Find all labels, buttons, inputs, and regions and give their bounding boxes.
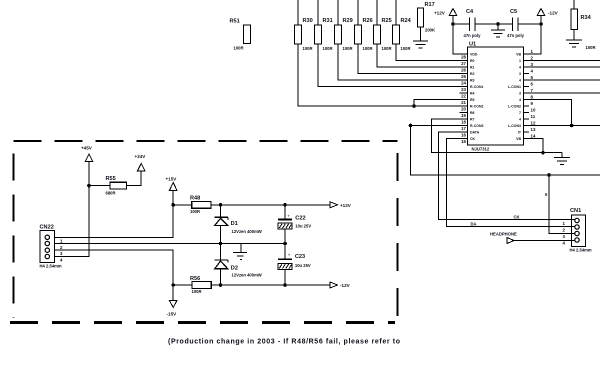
pin 11 stub [524,118,530,120]
svg-text:R-CON3: R-CON3 [470,124,483,128]
svg-text:7: 7 [519,111,521,115]
node -15V/R56 junction [171,283,175,287]
node -12V/C5 junction [539,22,543,26]
+15V supply arrow [166,177,178,191]
pin 10 stub [524,112,530,114]
node C22 top on +12V rail [283,203,287,207]
svg-text:10u 25V: 10u 25V [295,263,311,268]
svg-text:C23: C23 [295,254,305,260]
wire -12V rail [211,284,330,286]
wire +12V rail [211,204,330,206]
svg-text:D2: D2 [231,266,238,272]
wire CN22 pin 3 to -15V node [55,250,174,285]
svg-text:+12V: +12V [340,203,352,208]
zener diode D1 [215,205,262,244]
wire R30 to pin 20 [298,44,468,106]
resistor R51 [230,19,251,51]
svg-text:R3: R3 [470,78,475,82]
svg-text:R26: R26 [363,18,373,24]
svg-text:100R: 100R [323,46,333,51]
svg-text:(Production change in 2003 - I: (Production change in 2003 - If R48/R56 … [168,339,400,346]
svg-text:VDD: VDD [470,52,478,56]
svg-text:4: 4 [519,117,521,121]
wire pin 5 to right edge [524,79,600,81]
svg-text:100R: 100R [234,46,244,51]
+45V supply arrow [81,146,93,162]
wire CK pin 15 to CN1 pin 2 [446,139,574,227]
svg-text:DATA: DATA [470,130,480,134]
ground below R34 [566,30,582,48]
svg-text:+34V: +34V [135,154,147,159]
svg-text:26: 26 [461,68,466,73]
resistor R55 [89,176,127,196]
connector CN22 [40,225,62,269]
svg-text:H4 2.54mm: H4 2.54mm [570,248,592,253]
svg-text:-12V: -12V [340,283,351,288]
ground right of U1 [554,153,570,165]
wire pin 2 to right edge [524,60,600,62]
wire pin 18 row [411,125,468,127]
svg-text:+15V: +15V [166,177,178,182]
svg-text:C4: C4 [466,9,474,15]
svg-text:28: 28 [461,55,466,60]
op-amp U1 (electronic volume IC) [468,42,524,152]
wire C5 to -12V line [518,23,541,25]
capacitor C4 [464,9,482,38]
pin 19 stub [460,112,468,114]
wire pin 3 to right edge [524,66,600,68]
svg-text:680R: 680R [106,191,116,196]
svg-text:-15V: -15V [167,312,178,317]
node D2 bottom [219,283,223,287]
node D1 top [219,203,223,207]
svg-text:R7: R7 [470,117,475,121]
wire +12V to VDD pin 28 [453,16,468,55]
svg-text:22: 22 [461,94,466,99]
headphone signal arrow [507,238,514,244]
node ground junction [496,22,500,26]
node +15V/R48/CN22-1 junction [171,203,175,207]
resistor R48 [173,196,211,214]
svg-text:23: 23 [461,87,466,92]
svg-text:17: 17 [461,126,466,131]
wire node down to -15V arrow [172,285,174,301]
svg-text:+12V: +12V [434,11,446,16]
svg-text:R48: R48 [190,196,200,202]
wire headphone to CN1 pin 4 [514,240,575,242]
wire R26 to pin 25 [358,44,468,74]
zener diode D2 [215,244,262,286]
wire R25 to pin 26 [377,44,468,67]
svg-text:+45V: +45V [81,146,93,151]
capacitor C5 [507,9,525,38]
svg-text:L-CON3: L-CON3 [508,124,521,128]
connector CN1 [570,208,592,253]
wire CN22 pin2 mid rail [55,243,286,245]
svg-text:HEADPHONE: HEADPHONE [490,232,517,237]
svg-text:C22: C22 [295,216,305,222]
node junction bus to CN1 pin 3 [547,173,551,177]
svg-text:R34: R34 [581,15,592,21]
svg-text:10: 10 [531,108,536,113]
dashed enclosure left border [12,153,14,318]
svg-text:R1: R1 [470,65,475,69]
svg-text:D1: D1 [231,221,238,227]
svg-text:100R: 100R [401,46,411,51]
svg-text:R24: R24 [401,18,412,24]
svg-text:R5: R5 [470,98,475,102]
node pin14 ground junction [541,151,545,155]
svg-text:C5: C5 [510,9,517,15]
dashed enclosure bottom border [10,321,395,324]
svg-text:15: 15 [461,139,466,144]
svg-text:100R: 100R [303,46,313,51]
wire pin 8 to loop vertical [524,100,572,126]
svg-text:H4 2.54mm: H4 2.54mm [40,264,62,269]
svg-text:12: 12 [531,121,536,126]
dashed enclosure right border [396,153,398,318]
svg-text:100R: 100R [382,46,392,51]
wire bus down to CN1 pin 3 [549,175,575,234]
svg-text:VB: VB [516,137,521,141]
pin 9 stub [524,105,530,107]
svg-text:L-CON1: L-CON1 [508,85,521,89]
wire pin 12 row to right edge [524,125,600,127]
resistor R26 [355,0,373,51]
node R55 junction [87,184,91,188]
svg-text:10u 25V: 10u 25V [295,224,311,229]
pin 13 stub [524,131,530,133]
wire DATA pin 16 to CN1 pin 1 [439,132,575,220]
svg-text:R56: R56 [190,276,200,282]
-12V output arrow [330,282,351,288]
resistor R24 [393,0,412,51]
svg-text:CK: CK [514,214,520,219]
svg-text:11: 11 [531,114,536,119]
svg-text:13: 13 [531,127,536,132]
wire pin 17 to ground rail [431,119,562,153]
svg-text:100R: 100R [343,46,353,51]
svg-text:R29: R29 [343,18,353,24]
node loop junction pin 12 row [570,124,574,128]
svg-text:14: 14 [531,134,536,139]
pin 6 stub [524,86,530,88]
svg-text:25: 25 [461,74,466,79]
svg-text:16: 16 [461,133,466,138]
resistor R17 [418,2,436,33]
svg-text:47n poly: 47n poly [464,33,482,38]
svg-text:+: + [287,214,290,219]
node C23 bottom [283,283,287,287]
svg-text:1: 1 [519,59,521,63]
svg-text:NJU7312: NJU7312 [472,147,490,152]
svg-text:R30: R30 [303,18,313,24]
-12V supply arrow [537,9,558,16]
svg-text:47n poly: 47n poly [507,33,525,38]
svg-text:+: + [288,253,291,258]
wire pin 14 down to ground rail [524,139,544,153]
wire +15V down to R48 node [172,191,174,205]
svg-text:100R: 100R [192,289,202,294]
svg-text:R6: R6 [470,111,475,115]
svg-text:R4: R4 [470,91,475,95]
+12V output arrow [330,202,352,208]
resistor R29 [335,0,353,51]
svg-text:12Vzen 400mW: 12Vzen 400mW [232,272,262,277]
wire pin 7 to right edge [524,92,600,94]
wire R24 to pin 27 [396,44,468,61]
svg-text:24: 24 [461,81,466,86]
resistor R56 [173,276,211,294]
node junction on pin 21 line [412,104,416,108]
resistor R25 [374,0,392,51]
svg-text:4: 4 [519,98,521,102]
svg-text:200K: 200K [425,28,435,33]
resistor R31 [315,0,333,51]
svg-text:R2: R2 [470,72,475,76]
+34V supply arrow [135,154,147,171]
svg-text:-12V: -12V [548,11,559,16]
pin 4 stub [524,73,530,75]
svg-text:VB: VB [516,52,521,56]
svg-text:21: 21 [461,100,466,105]
node junction on pin 18 row [409,124,413,128]
svg-text:R-CON2: R-CON2 [470,104,483,108]
svg-text:100R: 100R [586,45,596,50]
capacitor C23 [278,244,311,286]
wire junction up to pin 22 row [414,100,468,107]
ground below R17 [413,27,428,48]
svg-text:12Vzen 400mW: 12Vzen 400mW [232,229,262,234]
svg-text:4: 4 [519,65,521,69]
svg-text:R25: R25 [382,18,392,24]
svg-text:R31: R31 [323,18,333,24]
+12V supply arrow [434,9,457,16]
node C column mid rail [283,242,287,246]
svg-text:3: 3 [519,72,521,76]
svg-text:CK: CK [470,137,476,141]
svg-text:R51: R51 [230,19,240,25]
-15V supply arrow [167,301,178,317]
ground between C4 and C5 [491,24,505,37]
svg-text:3: 3 [519,91,521,95]
svg-text:R-CON1: R-CON1 [470,85,483,89]
svg-text:20: 20 [461,107,466,112]
dashed enclosure top border [14,140,398,142]
capacitor C22 [278,205,311,244]
pin 22 stub [460,92,468,94]
wire +45V down to CN22 pin 4 [55,162,90,257]
resistor R30 [295,0,313,51]
svg-text:27: 27 [461,61,466,66]
svg-text:100R: 100R [363,46,373,51]
wire R31 to pin 23 [318,44,468,87]
ground on mid rail [233,244,247,260]
wire R55 to +34V [127,171,142,186]
svg-text:100R: 100R [190,209,200,214]
svg-text:CN22: CN22 [40,225,54,231]
svg-text:18: 18 [461,120,466,125]
wire C4 to C5 [475,23,513,25]
wire R29 to pin 24 [338,44,468,80]
svg-text:CN1: CN1 [570,208,581,214]
svg-text:4: 4 [519,78,521,82]
wire to C4 [453,23,470,25]
node D1 bottom on mid rail [219,242,223,246]
svg-text:R55: R55 [106,176,116,182]
wire -12V to pin 1 [524,16,542,55]
svg-text:19: 19 [461,113,466,118]
svg-text:R0: R0 [470,59,475,63]
svg-text:L-CON2: L-CON2 [508,104,521,108]
node +12V/C4 junction [451,22,455,26]
svg-text:DA: DA [471,221,477,226]
wire node down to CN22 pin 1 [55,205,174,238]
svg-text:R17: R17 [425,2,435,8]
wire down to long horizontal bus [411,126,600,176]
resistor R34 [571,0,596,50]
